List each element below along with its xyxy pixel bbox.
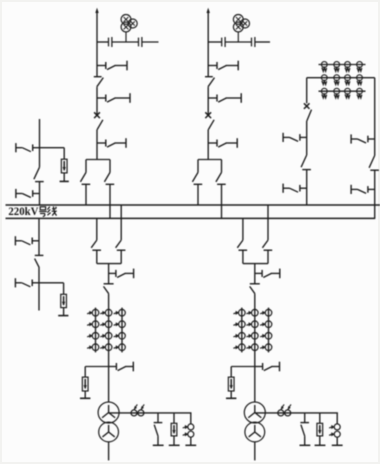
wire	[96, 130, 98, 160]
current transformer r3c2	[105, 333, 112, 340]
disconnector (vertical)	[369, 156, 375, 168]
current transformer r2c3	[119, 321, 126, 328]
earthing switch branch	[97, 65, 106, 67]
PT row wire (frame)	[307, 77, 375, 79]
wire LV stem	[254, 442, 256, 461]
bus-II disconnector leg	[221, 160, 223, 173]
earthing switch branch	[97, 97, 106, 99]
earthing switch branch	[14, 278, 16, 287]
wire to arrester	[85, 366, 108, 368]
earthing switch branch	[109, 272, 116, 274]
transformer LV winding	[99, 422, 119, 442]
wire to bus II	[374, 170, 376, 218]
current transformer r3c2	[252, 333, 259, 340]
wire stem	[254, 294, 256, 403]
current transformer r3c1	[239, 333, 246, 340]
current transformer r2c3	[265, 321, 272, 328]
current transformer on MV line	[131, 410, 137, 416]
ground	[230, 391, 232, 398]
bus-I disconnector leg	[267, 205, 269, 240]
ground	[84, 391, 86, 398]
current transformer on MV line	[138, 410, 144, 416]
wire CT column left	[241, 308, 243, 353]
wire CT column left	[95, 308, 97, 353]
bus-II disconnector leg	[109, 160, 111, 173]
current transformer on MV line	[285, 410, 291, 416]
wire feeder vertical upper	[96, 12, 98, 77]
earthing switch branch	[208, 65, 217, 67]
busbar label hao (Chinese char)	[39, 207, 47, 217]
current transformer r4c1	[239, 344, 246, 351]
voltage transformer (CVT) 3-winding	[121, 15, 131, 25]
voltage transformer row1 col3	[345, 62, 351, 68]
current transformer r1c3	[265, 309, 272, 316]
busbar II 220kV	[6, 217, 376, 219]
circuit breaker	[205, 112, 211, 118]
disconnector (vertical)	[301, 155, 307, 167]
current transformer r1c1	[92, 309, 99, 316]
svg-text:220kV: 220kV	[8, 204, 38, 218]
current transformer r1c2	[105, 309, 112, 316]
voltage transformer row1 col4	[357, 62, 363, 68]
disconnector blade	[97, 120, 103, 130]
wire to arrester	[40, 147, 65, 149]
disconnector blade	[307, 110, 312, 121]
current transformer on MV line	[278, 410, 284, 416]
surge arrester	[61, 159, 67, 173]
wire fork header	[198, 159, 222, 161]
earthing switch branch	[97, 142, 106, 144]
wire LV stem	[108, 442, 110, 461]
current transformer r2c1	[92, 321, 99, 328]
bus-II disconnector leg	[242, 218, 244, 240]
coupling capacitor	[138, 38, 140, 47]
current transformer r1c3	[119, 309, 126, 316]
voltage transformer row1 col1	[321, 62, 327, 68]
coupling capacitor	[221, 38, 223, 47]
voltage transformer drop	[336, 413, 338, 424]
bus-II disconnector leg	[96, 218, 98, 240]
disconnector (vertical)	[104, 283, 114, 285]
line arrow	[207, 8, 210, 13]
current transformer r2c1	[239, 321, 246, 328]
voltage transformer drop	[190, 413, 192, 424]
wire CT column right	[268, 308, 270, 353]
current transformer r3c3	[265, 333, 272, 340]
wire to arrester	[39, 282, 64, 284]
wire feeder vertical upper	[207, 12, 209, 77]
current transformer r1c1	[239, 309, 246, 316]
wire to bus I	[306, 170, 308, 206]
line arrow	[95, 8, 98, 13]
voltage transformer row3 col4	[357, 88, 363, 94]
bus-I disconnector leg	[120, 205, 122, 240]
coupling capacitor	[108, 38, 110, 47]
bus-I disconnector leg	[85, 160, 87, 173]
current transformer r3c3	[119, 333, 126, 340]
earthing switch branch	[208, 142, 217, 144]
voltage transformer row2 col2	[334, 75, 340, 81]
current transformer r1c2	[252, 309, 259, 316]
busbar I 220kV	[6, 204, 380, 206]
current transformer r4c2	[252, 344, 259, 351]
voltage transformer row3 col3	[345, 88, 351, 94]
current transformer r4c3	[119, 344, 126, 351]
earthing switch branch	[15, 143, 17, 152]
disconnector (vertical)	[250, 283, 260, 285]
wire vertical	[38, 218, 40, 255]
wire merge	[243, 263, 268, 265]
wire	[306, 121, 308, 155]
ground	[63, 308, 65, 316]
current transformer r4c3	[265, 344, 272, 351]
current transformer r2c2	[252, 321, 259, 328]
wire	[38, 267, 40, 310]
earthing switch branch	[350, 134, 352, 143]
circuit breaker	[304, 103, 310, 109]
wire stem	[108, 294, 110, 403]
PT row wire	[319, 64, 366, 66]
transformer HV winding	[98, 402, 119, 423]
voltage transformer row2 col3	[345, 75, 351, 81]
wire	[207, 130, 209, 160]
earthing switch branch	[208, 97, 217, 99]
disconnector blade	[208, 120, 214, 130]
surge arrester	[82, 377, 88, 391]
wire merge	[97, 263, 121, 265]
wire stem	[254, 264, 256, 284]
wire vertical	[39, 119, 41, 167]
wire CVT branch	[208, 41, 222, 43]
wire fork header	[86, 159, 110, 161]
current transformer r2c2	[105, 321, 112, 328]
disconnector (vertical)	[34, 167, 40, 179]
busbar label xian (Chinese char)	[47, 206, 56, 215]
coupling capacitor	[251, 38, 253, 47]
current transformer r3c1	[92, 333, 99, 340]
voltage transformer row2 col1	[321, 75, 327, 81]
voltage transformer (CVT) 3-winding	[233, 15, 243, 25]
surge arrester	[228, 377, 234, 391]
PT row wire	[319, 90, 366, 92]
wire	[207, 87, 209, 115]
disconnector (vertical)	[35, 254, 44, 256]
voltage transformer row2 col4	[357, 75, 363, 81]
wire	[374, 78, 376, 156]
ground	[63, 173, 65, 182]
transformer HV winding	[244, 402, 265, 423]
wire CVT branch	[97, 41, 109, 43]
voltage transformer row3 col1	[321, 88, 327, 94]
earthing disconnector drop	[304, 413, 306, 423]
wire	[39, 182, 41, 206]
earthing disconnector drop	[157, 413, 159, 423]
bus-I disconnector leg	[197, 160, 199, 173]
voltage transformer row1 col2	[334, 62, 340, 68]
surge arrester drop	[173, 413, 175, 423]
wire MV line	[255, 412, 338, 414]
surge arrester	[61, 294, 67, 307]
disconnector (vertical)	[94, 76, 102, 78]
earthing switch branch	[109, 366, 117, 368]
wire	[306, 78, 308, 104]
wire CT column right	[121, 308, 123, 353]
wire stem	[108, 264, 110, 284]
current transformer r4c2	[105, 344, 112, 351]
earthing switch branch	[255, 272, 262, 274]
surge arrester drop	[319, 413, 321, 423]
wire MV line	[109, 412, 192, 414]
disconnector (vertical)	[205, 76, 213, 78]
earthing switch branch	[282, 184, 284, 193]
earthing switch branch	[350, 185, 352, 194]
wire	[96, 87, 98, 115]
earthing switch branch	[14, 236, 16, 245]
earthing switch branch	[255, 366, 263, 368]
transformer LV winding	[245, 422, 265, 442]
circuit breaker	[94, 112, 100, 118]
earthing switch branch	[282, 133, 284, 142]
earthing switch branch	[15, 189, 17, 198]
current transformer r4c1	[92, 344, 99, 351]
wire to arrester	[231, 366, 255, 368]
voltage transformer row3 col2	[334, 88, 340, 94]
